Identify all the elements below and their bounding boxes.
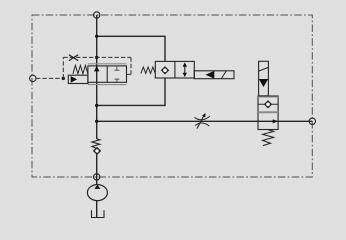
enclosure boundary (dash-dot frame) [32, 15, 312, 177]
proportional marks [88, 64, 127, 85]
port: right [309, 118, 315, 124]
valve V1 (pressure compensator, proportional 2-way) [68, 64, 126, 85]
wire: supply line to pump [96, 154, 98, 186]
blocked ports T symbols [114, 66, 119, 82]
spring [73, 65, 88, 73]
port: left [30, 75, 36, 81]
pilot actuator box [68, 75, 88, 83]
junction dot at tee [95, 35, 98, 38]
metering diamond with ball [258, 103, 278, 105]
port: top [94, 12, 100, 18]
junction dot pilot left branch [62, 77, 65, 80]
junction dot A [95, 104, 98, 107]
tank [92, 210, 105, 217]
pump P1 [87, 185, 107, 201]
valve V2 (solenoid seat valve 2/2) [141, 61, 234, 78]
spring [263, 130, 274, 146]
wire: supply line from top port down through valve V1 [96, 15, 98, 139]
wire: valve V2 outlet back to supply line [97, 78, 165, 105]
variable throttle [194, 115, 209, 129]
solenoid [194, 71, 234, 79]
wire: main horizontal line to right port [97, 120, 313, 122]
body box [88, 66, 127, 82]
wire: tee branch to valve V2 [97, 36, 165, 61]
double arrow (open position) [184, 65, 186, 75]
poppet diamond with ball [162, 67, 169, 74]
flow arrowhead [273, 119, 278, 123]
spring [141, 67, 155, 73]
pilot line (dashed) from left port to valve V1 [36, 57, 131, 78]
junction dot at pilot crossing [95, 56, 98, 59]
valve V3 (proportional pressure relief) [258, 61, 278, 145]
wire: pump suction to tank [96, 200, 98, 217]
body [258, 96, 278, 130]
junction dot B [95, 120, 98, 123]
spring-loaded check element on supply line [92, 139, 101, 155]
flow arrow [94, 66, 99, 72]
port: pump suction [94, 174, 100, 180]
solenoid (vertical) [259, 61, 269, 96]
plugged connection X [69, 55, 78, 61]
